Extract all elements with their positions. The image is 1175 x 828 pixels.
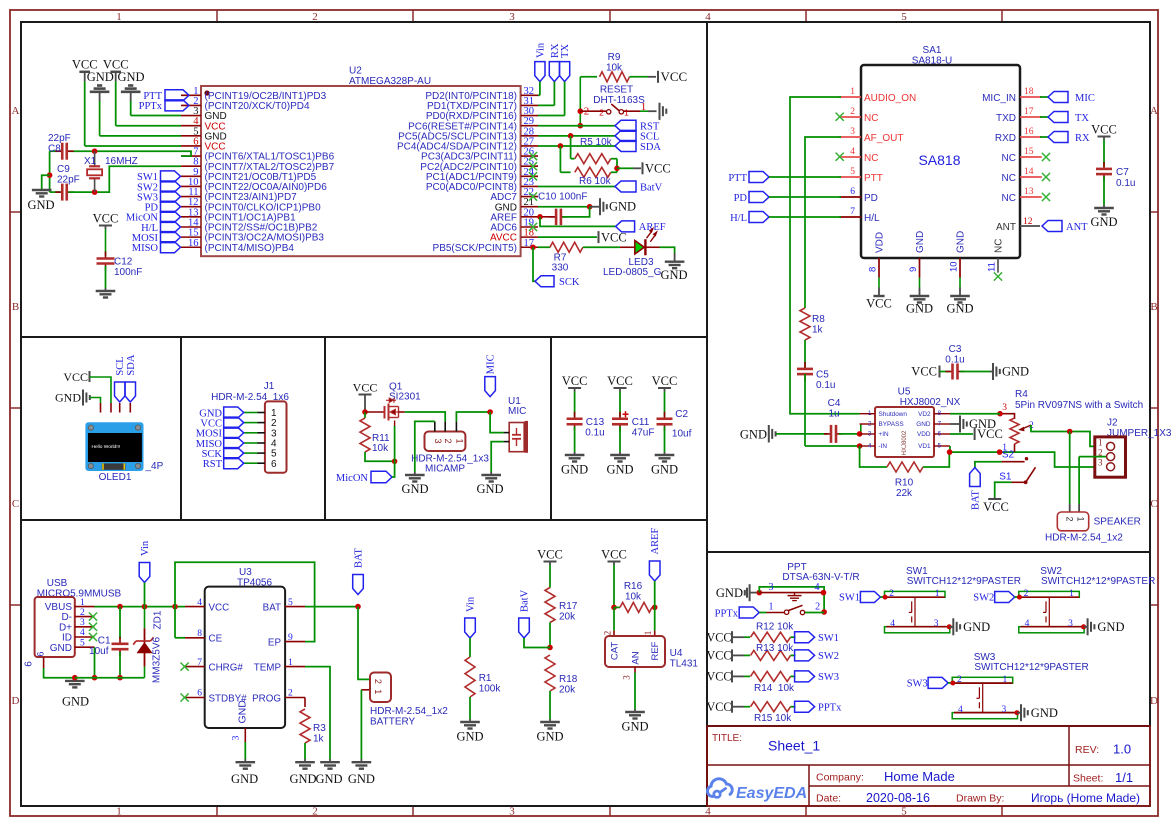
svg-text:VCC: VCC: [983, 500, 1009, 514]
svg-text:RX: RX: [1075, 133, 1090, 144]
svg-text:S1: S1: [999, 472, 1012, 483]
svg-text:TITLE:: TITLE:: [712, 733, 742, 744]
svg-text:CAT: CAT: [610, 642, 621, 660]
svg-text:2: 2: [443, 438, 453, 443]
svg-text:1.0: 1.0: [1113, 742, 1131, 757]
svg-text:HXJ8002: HXJ8002: [902, 430, 908, 455]
svg-text:R1: R1: [479, 673, 492, 684]
svg-text:10k: 10k: [606, 63, 623, 74]
svg-text:REV:: REV:: [1075, 744, 1099, 756]
svg-text:16: 16: [188, 238, 199, 249]
svg-text:+IN: +IN: [879, 431, 890, 438]
svg-text:MISO: MISO: [132, 243, 159, 254]
svg-text:Hello World!!!: Hello World!!!: [92, 444, 121, 450]
svg-text:1: 1: [116, 806, 122, 818]
svg-text:7: 7: [938, 421, 942, 428]
svg-text:GND: GND: [956, 231, 967, 253]
svg-text:C: C: [1150, 498, 1157, 510]
svg-text:6: 6: [24, 661, 35, 667]
svg-text:TXD: TXD: [996, 113, 1016, 124]
svg-text:D: D: [1150, 695, 1158, 707]
svg-text:5: 5: [850, 167, 855, 177]
svg-text:_4P: _4P: [145, 461, 164, 472]
svg-text:16MHZ: 16MHZ: [105, 156, 138, 167]
svg-text:Date:: Date:: [816, 793, 841, 805]
svg-text:1: 1: [641, 101, 647, 113]
svg-text:GND: GND: [456, 730, 483, 744]
svg-text:-IN: -IN: [879, 443, 888, 450]
svg-text:NC: NC: [1002, 173, 1016, 184]
svg-text:1/1: 1/1: [1115, 770, 1133, 785]
svg-text:PB5(SCK/PCINT5): PB5(SCK/PCINT5): [433, 243, 517, 254]
svg-text:J2: J2: [1107, 418, 1118, 429]
svg-text:Shutdown: Shutdown: [879, 411, 908, 418]
svg-text:VCC: VCC: [63, 370, 88, 384]
svg-text:VD1: VD1: [918, 443, 931, 450]
svg-text:3: 3: [769, 582, 774, 593]
svg-text:6: 6: [271, 459, 277, 470]
svg-text:7: 7: [197, 658, 202, 668]
svg-text:VCC: VCC: [645, 162, 671, 176]
svg-text:3: 3: [509, 806, 515, 818]
svg-text:PROG: PROG: [252, 693, 281, 704]
svg-text:10uf: 10uf: [672, 429, 692, 440]
svg-text:2: 2: [850, 107, 855, 117]
svg-text:AREF: AREF: [650, 528, 661, 555]
svg-text:NC: NC: [1002, 193, 1016, 204]
svg-text:GND: GND: [915, 231, 926, 253]
svg-text:3: 3: [1098, 458, 1103, 468]
svg-text:2: 2: [599, 108, 604, 118]
svg-text:GND: GND: [50, 643, 72, 654]
svg-text:1: 1: [1069, 589, 1074, 599]
svg-text:B: B: [1150, 301, 1157, 313]
svg-text:Company:: Company:: [816, 772, 864, 784]
svg-text:R15 10k: R15 10k: [754, 713, 792, 724]
svg-text:U3: U3: [239, 567, 252, 578]
svg-text:PPTx: PPTx: [139, 101, 163, 112]
svg-text:R13 10k: R13 10k: [756, 643, 794, 654]
svg-text:0.1u: 0.1u: [1116, 178, 1135, 189]
svg-text:4: 4: [80, 628, 85, 638]
svg-text:BatV: BatV: [640, 182, 663, 193]
svg-text:C8: C8: [48, 144, 61, 155]
svg-text:R6 10k: R6 10k: [579, 176, 612, 187]
svg-text:DTSA-63N-V-T/R: DTSA-63N-V-T/R: [782, 572, 859, 583]
svg-text:AN: AN: [631, 651, 642, 664]
svg-text:4: 4: [815, 582, 820, 593]
svg-text:14: 14: [1024, 167, 1034, 177]
svg-text:GND: GND: [231, 772, 258, 786]
svg-text:SW1: SW1: [818, 633, 839, 644]
svg-text:GND: GND: [561, 463, 588, 477]
svg-text:22pF: 22pF: [57, 175, 80, 186]
svg-text:GND: GND: [660, 268, 687, 282]
svg-text:6: 6: [938, 431, 942, 438]
svg-text:VCC: VCC: [601, 230, 627, 244]
svg-text:C5: C5: [816, 370, 829, 381]
svg-text:SA1: SA1: [923, 45, 942, 56]
svg-text:GND: GND: [916, 421, 931, 428]
svg-text:MIC: MIC: [1075, 93, 1095, 104]
svg-text:3: 3: [622, 675, 632, 680]
svg-text:SW3: SW3: [818, 672, 839, 683]
svg-text:VCC: VCC: [1091, 123, 1117, 137]
svg-text:3: 3: [80, 618, 85, 628]
svg-text:D: D: [12, 695, 20, 707]
svg-text:3: 3: [850, 127, 855, 137]
svg-text:RESET: RESET: [600, 85, 633, 96]
svg-text:U2: U2: [349, 66, 362, 77]
svg-text:C9: C9: [57, 164, 70, 175]
svg-text:VCC: VCC: [209, 602, 230, 613]
svg-text:1: 1: [1075, 516, 1085, 521]
svg-text:MIC: MIC: [508, 406, 526, 417]
svg-text:GND: GND: [87, 70, 114, 84]
svg-text:TL431: TL431: [670, 659, 699, 670]
svg-text:10uf: 10uf: [89, 646, 109, 657]
svg-text:5: 5: [938, 443, 942, 450]
svg-text:1: 1: [373, 689, 383, 694]
svg-text:2: 2: [1024, 589, 1029, 599]
svg-text:4: 4: [868, 443, 872, 450]
svg-text:VCC: VCC: [601, 548, 627, 562]
svg-text:100nF: 100nF: [114, 267, 142, 278]
svg-text:H/L: H/L: [864, 213, 880, 224]
svg-text:3: 3: [1002, 403, 1007, 413]
svg-text:SW2: SW2: [973, 593, 994, 604]
svg-text:GND: GND: [27, 198, 54, 212]
svg-text:MicON: MicON: [336, 473, 368, 484]
svg-text:1: 1: [850, 87, 855, 97]
svg-text:16: 16: [1024, 127, 1034, 137]
svg-text:GND: GND: [716, 586, 743, 600]
svg-text:SWITCH12*12*9PASTER: SWITCH12*12*9PASTER: [907, 576, 1021, 587]
svg-text:Vin: Vin: [140, 540, 151, 556]
svg-text:TX: TX: [1075, 113, 1089, 124]
svg-text:SA818: SA818: [918, 152, 960, 168]
svg-text:2: 2: [312, 806, 318, 818]
svg-text:BAT: BAT: [970, 490, 981, 510]
svg-text:2: 2: [815, 602, 820, 613]
svg-text:SPEAKER: SPEAKER: [1094, 517, 1141, 528]
svg-text:1: 1: [624, 108, 629, 118]
svg-text:X1: X1: [84, 156, 97, 167]
svg-text:R14 10k: R14 10k: [754, 683, 795, 694]
svg-text:VCC: VCC: [911, 365, 937, 379]
svg-text:S2: S2: [1002, 450, 1015, 461]
svg-text:PPTx: PPTx: [715, 608, 739, 619]
svg-text:VDD: VDD: [875, 232, 886, 253]
svg-text:2: 2: [1065, 516, 1075, 521]
svg-text:VDD: VDD: [917, 431, 931, 438]
svg-text:1: 1: [1003, 675, 1008, 685]
svg-text:BatV: BatV: [520, 589, 531, 612]
svg-text:4: 4: [958, 705, 963, 715]
svg-text:1: 1: [935, 589, 940, 599]
svg-text:GND: GND: [609, 200, 636, 214]
svg-text:3: 3: [1068, 619, 1073, 629]
svg-text:VCC: VCC: [562, 374, 588, 388]
svg-text:GND: GND: [1002, 365, 1029, 379]
svg-text:330: 330: [552, 263, 569, 274]
svg-text:SWITCH12*12*9PASTER: SWITCH12*12*9PASTER: [974, 662, 1088, 673]
svg-text:1: 1: [643, 631, 653, 636]
svg-text:MIC_IN: MIC_IN: [982, 93, 1016, 104]
svg-text:SCK: SCK: [559, 277, 580, 288]
svg-text:R16: R16: [624, 581, 643, 592]
svg-text:HDR-M-2.54_1x2: HDR-M-2.54_1x2: [1045, 533, 1123, 544]
svg-text:1: 1: [80, 598, 85, 608]
svg-text:1u: 1u: [828, 409, 839, 420]
svg-text:13: 13: [1024, 187, 1034, 197]
svg-text:2: 2: [957, 675, 962, 685]
svg-text:8: 8: [868, 267, 879, 272]
svg-text:VCC: VCC: [706, 649, 731, 663]
svg-text:18: 18: [1024, 87, 1034, 97]
svg-text:3: 3: [433, 438, 443, 443]
svg-text:6: 6: [36, 651, 46, 656]
svg-text:BAT: BAT: [354, 548, 365, 568]
svg-text:VCC: VCC: [537, 548, 563, 562]
svg-text:R17: R17: [559, 601, 578, 612]
svg-text:R12 10k: R12 10k: [756, 622, 794, 633]
svg-text:USB: USB: [47, 578, 68, 589]
svg-text:15: 15: [1024, 147, 1034, 157]
svg-text:SDA: SDA: [640, 142, 661, 153]
svg-text:20k: 20k: [559, 685, 576, 696]
svg-text:R3: R3: [313, 723, 326, 734]
svg-text:3: 3: [232, 735, 242, 740]
svg-text:GND: GND: [55, 391, 81, 405]
svg-text:1: 1: [1098, 437, 1103, 447]
svg-text:C7: C7: [1116, 167, 1129, 178]
svg-text:GND: GND: [651, 463, 678, 477]
svg-text:0.1u: 0.1u: [945, 355, 964, 366]
svg-text:ANT: ANT: [1066, 222, 1088, 233]
svg-text:GND: GND: [906, 301, 933, 315]
svg-text:NC: NC: [1002, 153, 1016, 164]
svg-text:R10: R10: [895, 478, 914, 489]
svg-text:SW1: SW1: [839, 593, 860, 604]
svg-text:1: 1: [288, 658, 293, 668]
svg-text:MM3Z5V6: MM3Z5V6: [152, 637, 163, 684]
svg-text:R8: R8: [812, 314, 825, 325]
svg-text:SCL: SCL: [115, 356, 126, 375]
svg-text:H/L: H/L: [730, 213, 747, 224]
svg-text:GND: GND: [401, 482, 428, 496]
svg-text:0.1u: 0.1u: [816, 380, 835, 391]
svg-text:VCC: VCC: [706, 670, 731, 684]
svg-text:4: 4: [197, 598, 202, 608]
svg-text:GND: GND: [963, 620, 990, 634]
svg-text:2: 2: [603, 631, 613, 636]
svg-text:GND: GND: [536, 730, 563, 744]
svg-text:B: B: [12, 301, 19, 313]
svg-text:VCC: VCC: [652, 374, 678, 388]
svg-text:VCC: VCC: [93, 212, 119, 226]
svg-text:Игорь (Home Made): Игорь (Home Made): [1031, 791, 1140, 805]
svg-text:22k: 22k: [896, 488, 913, 499]
svg-text:4: 4: [850, 147, 855, 157]
svg-text:9: 9: [908, 267, 919, 272]
svg-text:ANT: ANT: [996, 222, 1016, 233]
svg-text:GND: GND: [1090, 215, 1117, 229]
svg-text:R4: R4: [1015, 389, 1028, 400]
svg-text:C10 100nF: C10 100nF: [538, 192, 587, 203]
svg-text:BYPASS: BYPASS: [879, 421, 904, 428]
svg-text:NC: NC: [864, 153, 878, 164]
svg-text:1k: 1k: [313, 734, 325, 745]
svg-text:10k: 10k: [372, 443, 389, 454]
svg-text:VCC: VCC: [706, 631, 731, 645]
svg-text:6: 6: [850, 187, 855, 197]
svg-text:REF: REF: [650, 641, 661, 660]
svg-text:GND: GND: [117, 70, 144, 84]
svg-text:C2: C2: [675, 409, 688, 420]
svg-text:A: A: [1150, 105, 1158, 117]
svg-text:8: 8: [938, 410, 942, 417]
svg-text:J1: J1: [264, 381, 275, 392]
svg-text:11: 11: [987, 262, 998, 272]
svg-text:GND: GND: [740, 428, 767, 442]
svg-text:3: 3: [1002, 705, 1007, 715]
svg-text:RXD: RXD: [995, 133, 1016, 144]
svg-text:C: C: [12, 498, 19, 510]
svg-text:20k: 20k: [559, 612, 576, 623]
svg-text:SDA: SDA: [126, 354, 137, 375]
svg-text:A: A: [12, 105, 20, 117]
svg-text:GND: GND: [1097, 620, 1124, 634]
svg-text:NC: NC: [994, 239, 1005, 253]
svg-text:MIC: MIC: [486, 354, 497, 374]
svg-text:(PCINT4/MISO)PB4: (PCINT4/MISO)PB4: [205, 243, 295, 254]
svg-text:3: 3: [868, 431, 872, 438]
svg-text:VCC: VCC: [607, 374, 633, 388]
svg-text:5: 5: [901, 806, 907, 818]
svg-text:5Pin RV097NS with a Switch: 5Pin RV097NS with a Switch: [1015, 400, 1143, 411]
svg-text:AF_OUT: AF_OUT: [864, 133, 903, 144]
svg-text:4: 4: [705, 806, 711, 818]
svg-text:CHRG#: CHRG#: [209, 662, 244, 673]
svg-text:VCC: VCC: [977, 427, 1003, 441]
svg-text:2: 2: [288, 689, 293, 699]
svg-text:C12: C12: [114, 257, 133, 268]
svg-text:VCC: VCC: [866, 296, 892, 310]
svg-text:OLED1: OLED1: [99, 472, 132, 483]
svg-text:AUDIO_ON: AUDIO_ON: [864, 93, 916, 104]
svg-text:7: 7: [850, 207, 855, 217]
svg-text:17: 17: [1024, 107, 1034, 117]
svg-text:2: 2: [889, 589, 894, 599]
svg-text:TX: TX: [560, 44, 571, 58]
svg-text:5: 5: [288, 598, 293, 608]
svg-text:8: 8: [197, 629, 202, 639]
svg-text:VCC: VCC: [706, 700, 731, 714]
svg-text:0.1u: 0.1u: [585, 428, 604, 439]
svg-text:PPTx: PPTx: [818, 703, 842, 714]
svg-text:100k: 100k: [479, 684, 502, 695]
svg-text:PD: PD: [734, 193, 748, 204]
svg-text:C11: C11: [632, 417, 650, 428]
svg-text:3: 3: [934, 619, 939, 629]
svg-text:10: 10: [949, 261, 960, 272]
svg-text:Vin: Vin: [466, 596, 477, 612]
svg-text:2: 2: [373, 679, 383, 684]
svg-text:GND: GND: [621, 720, 648, 734]
svg-text:2: 2: [584, 106, 590, 118]
svg-text:10k: 10k: [625, 592, 642, 603]
svg-text:TEMP: TEMP: [254, 662, 282, 673]
svg-text:U5: U5: [898, 387, 911, 398]
svg-text:C1: C1: [98, 636, 111, 647]
svg-text:GND: GND: [62, 695, 89, 709]
svg-text:SW2: SW2: [818, 651, 839, 662]
svg-text:PTT: PTT: [864, 173, 883, 184]
svg-text:NC: NC: [864, 113, 878, 124]
svg-text:RST: RST: [203, 459, 223, 470]
svg-text:Home Made: Home Made: [884, 769, 955, 784]
svg-text:CE: CE: [209, 634, 223, 645]
svg-text:5: 5: [80, 638, 85, 648]
svg-text:EasyEDA: EasyEDA: [736, 785, 807, 802]
svg-text:4: 4: [890, 619, 895, 629]
svg-text:Vin: Vin: [535, 42, 546, 58]
svg-text:VCC: VCC: [353, 381, 378, 395]
svg-text:1: 1: [454, 438, 464, 443]
svg-text:GND: GND: [289, 772, 316, 786]
svg-text:GND: GND: [315, 772, 342, 786]
svg-text:Sheet:: Sheet:: [1073, 773, 1103, 785]
svg-text:12: 12: [1023, 217, 1033, 227]
svg-text:VD2: VD2: [918, 411, 931, 418]
svg-text:6: 6: [197, 689, 202, 699]
svg-text:GND: GND: [237, 700, 249, 724]
svg-text:1k: 1k: [812, 325, 824, 336]
svg-text:9: 9: [288, 633, 293, 643]
svg-text:R9: R9: [608, 52, 621, 63]
svg-text:U4: U4: [670, 648, 683, 659]
svg-text:Drawn By:: Drawn By:: [956, 793, 1004, 805]
svg-text:C3: C3: [949, 344, 962, 355]
svg-text:C4: C4: [828, 398, 841, 409]
svg-text:1: 1: [769, 602, 774, 613]
svg-text:EP: EP: [268, 637, 282, 648]
svg-text:VCC: VCC: [661, 69, 688, 84]
svg-text:BAT: BAT: [263, 602, 281, 613]
svg-text:1: 1: [868, 410, 872, 417]
svg-text:47uF: 47uF: [632, 428, 655, 439]
svg-text:PTT: PTT: [728, 173, 747, 184]
svg-text:SWITCH12*12*9PASTER: SWITCH12*12*9PASTER: [1041, 576, 1155, 587]
svg-text:GND: GND: [476, 482, 503, 496]
svg-text:2: 2: [80, 608, 85, 618]
svg-text:R18: R18: [559, 674, 578, 685]
svg-text:BATTERY: BATTERY: [370, 717, 416, 728]
svg-text:GND: GND: [348, 772, 375, 786]
svg-text:SW3: SW3: [907, 679, 928, 690]
svg-text:R5 10k: R5 10k: [580, 137, 613, 148]
svg-text:GND: GND: [946, 301, 973, 315]
svg-text:MICAMP: MICAMP: [425, 464, 465, 475]
svg-text:4: 4: [1025, 619, 1030, 629]
svg-text:PD: PD: [864, 193, 878, 204]
svg-text:C13: C13: [586, 417, 605, 428]
svg-text:22pF: 22pF: [48, 133, 71, 144]
svg-text:2020-08-16: 2020-08-16: [866, 791, 930, 805]
svg-text:HDR-M-2.54_1x2: HDR-M-2.54_1x2: [370, 706, 448, 717]
svg-text:ZD1: ZD1: [153, 610, 164, 629]
